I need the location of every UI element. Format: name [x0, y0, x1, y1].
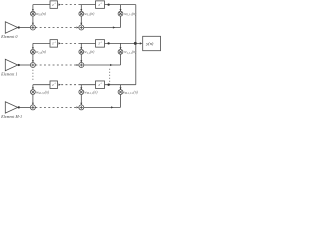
svg-text:w1,0(n): w1,0(n): [36, 50, 47, 55]
svg-text:w0,0(n): w0,0(n): [36, 12, 47, 17]
svg-text:Element M-1: Element M-1: [0, 115, 22, 119]
svg-text:w0,J-1(n): w0,J-1(n): [124, 12, 137, 17]
svg-text:w0,1(n): w0,1(n): [84, 12, 95, 17]
svg-text:w1,1(n): w1,1(n): [84, 50, 95, 55]
svg-text:Element 1: Element 1: [0, 73, 17, 77]
svg-text:Element 0: Element 0: [0, 35, 17, 39]
svg-text:y(n): y(n): [145, 41, 154, 46]
